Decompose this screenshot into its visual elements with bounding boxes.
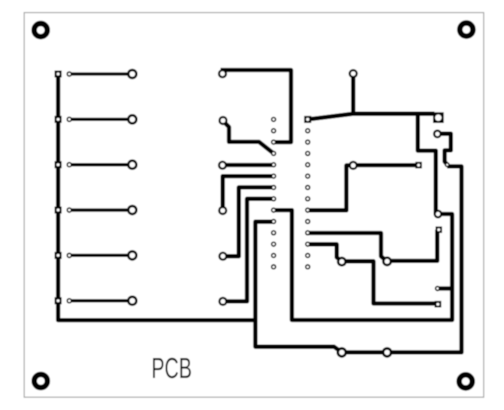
svg-text:PCB: PCB (151, 353, 192, 385)
